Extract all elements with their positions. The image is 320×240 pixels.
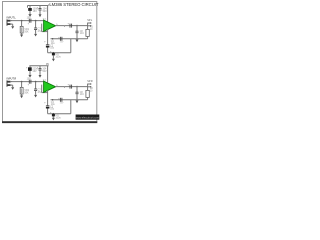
svg-text:9V: 9V <box>46 63 49 66</box>
wire: inverting input loop <box>42 24 48 32</box>
node junction <box>35 81 37 83</box>
ground <box>52 59 55 62</box>
capacitor C8b zobel <box>76 86 85 100</box>
capacitor C8 zobel <box>76 25 85 39</box>
capacitor C3 electrolytic <box>50 51 61 59</box>
capacitor C4b series <box>60 98 64 105</box>
capacitor C1b series <box>27 77 32 86</box>
capacitor C11 <box>37 66 47 75</box>
resistor R1 <box>86 26 94 39</box>
wire: V+ rail channel 2 <box>29 63 49 66</box>
wire: pin 4 drop channel 2 <box>47 90 49 106</box>
input connector J2 <box>7 80 12 86</box>
svg-text:50V: 50V <box>42 70 47 73</box>
wire: link to gain rail channel 2 <box>70 100 72 114</box>
svg-text:50K: 50K <box>24 92 29 95</box>
wire: pin6 supply drop channel 2 <box>47 66 49 83</box>
wire: gain rail channel 2 <box>51 97 88 106</box>
wire: signal channel 2 <box>10 81 44 83</box>
svg-text:SP.L: SP.L <box>87 19 93 22</box>
op-amp IC2 <box>43 80 56 93</box>
ground <box>34 95 37 98</box>
input connector J1 <box>7 19 12 25</box>
svg-text:www.eleccircuit.com: www.eleccircuit.com <box>76 115 99 119</box>
node junction <box>21 20 23 22</box>
svg-text:10u: 10u <box>27 16 32 19</box>
svg-text:10u: 10u <box>27 77 32 80</box>
capacitor C7 <box>34 21 42 34</box>
wire: bottom rail channel 1 <box>48 52 71 54</box>
capacitor C7b <box>34 82 42 95</box>
ground <box>34 34 37 37</box>
speaker connector SP2 <box>87 80 93 87</box>
svg-text:100u: 100u <box>55 116 61 119</box>
wire: gain rail channel 1 <box>51 36 88 45</box>
wire: output channel 1 <box>55 26 87 27</box>
capacitor C3b electrolytic <box>50 112 61 120</box>
ground <box>28 75 31 78</box>
wire: signal channel 1 <box>10 20 44 22</box>
svg-text:INPUT.L: INPUT.L <box>7 16 17 19</box>
svg-text:50K: 50K <box>24 31 29 34</box>
capacitor C9b output series <box>68 83 72 88</box>
node junction <box>21 81 23 83</box>
border frame <box>2 2 97 123</box>
ground <box>52 118 55 121</box>
svg-text:25V: 25V <box>60 42 64 44</box>
ground <box>76 39 79 42</box>
capacitor C10 electrolytic <box>26 66 38 75</box>
capacitor C1 series <box>27 16 32 25</box>
wire: output channel 2 <box>55 87 87 88</box>
capacitor C4 series <box>60 37 64 44</box>
capacitor C5 electrolytic <box>28 6 38 15</box>
svg-text:SP.R: SP.R <box>87 80 93 83</box>
svg-text:100u: 100u <box>55 55 61 58</box>
wire: input ground stub <box>10 24 13 26</box>
svg-text:50V: 50V <box>43 10 48 13</box>
svg-text:16V: 16V <box>32 70 37 73</box>
potentiometer VR2 <box>20 82 30 96</box>
ground <box>20 35 23 38</box>
ground <box>20 96 23 99</box>
ground <box>39 14 42 17</box>
ground <box>11 87 14 90</box>
svg-text:25V: 25V <box>60 103 64 105</box>
wire: inverting input loop channel 2 <box>42 85 48 93</box>
capacitor C2b electrolytic <box>44 101 55 113</box>
node junction <box>35 20 37 22</box>
capacitor C6 <box>37 6 47 15</box>
wire: link to feedback rail <box>70 39 72 53</box>
svg-text:16V: 16V <box>33 10 38 13</box>
svg-text:INPUT.R: INPUT.R <box>7 77 17 80</box>
ground <box>76 100 79 103</box>
ground <box>39 75 42 78</box>
capacitor C9 output series <box>68 22 72 27</box>
watermark bar <box>76 115 100 120</box>
capacitor C2 electrolytic <box>44 40 55 52</box>
wire: pin 4 drop <box>47 29 49 45</box>
ground <box>28 14 31 17</box>
svg-text:-LM386 STEREO CIRCUIT: -LM386 STEREO CIRCUIT <box>48 2 99 7</box>
wire: input ground stub channel 2 <box>10 85 13 87</box>
potentiometer VR1 <box>20 21 30 35</box>
wire: V+ rail channel 1 <box>28 6 49 8</box>
resistor R2 <box>86 87 94 100</box>
wire: pin6 supply drop <box>47 6 49 23</box>
op-amp IC1 <box>43 19 56 32</box>
ground <box>11 26 14 29</box>
speaker connector SP1 <box>87 19 93 26</box>
wire: bottom rail channel 2 <box>48 113 71 115</box>
